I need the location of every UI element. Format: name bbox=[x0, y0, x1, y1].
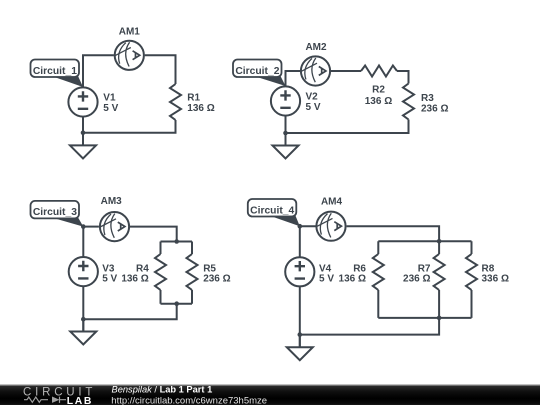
svg-text:R3: R3 bbox=[421, 93, 434, 104]
svg-text:LAB: LAB bbox=[67, 396, 93, 405]
svg-text:R1: R1 bbox=[187, 92, 200, 103]
svg-text:AM2: AM2 bbox=[305, 42, 327, 53]
svg-text:R2: R2 bbox=[372, 85, 385, 96]
svg-text:5 V: 5 V bbox=[103, 103, 118, 114]
svg-text:136 Ω: 136 Ω bbox=[365, 96, 392, 107]
svg-text:136 Ω: 136 Ω bbox=[121, 274, 148, 285]
svg-text:336 Ω: 336 Ω bbox=[482, 274, 509, 285]
svg-text:236 Ω: 236 Ω bbox=[203, 274, 230, 285]
svg-text:Circuit_3: Circuit_3 bbox=[33, 207, 77, 218]
svg-text:Benspilak / Lab 1 Part 1: Benspilak / Lab 1 Part 1 bbox=[112, 385, 213, 395]
svg-text:5 V: 5 V bbox=[306, 102, 321, 113]
svg-text:Circuit_1: Circuit_1 bbox=[33, 66, 77, 77]
svg-text:V1: V1 bbox=[103, 92, 116, 103]
svg-text:AM1: AM1 bbox=[119, 26, 141, 37]
svg-text:236 Ω: 236 Ω bbox=[403, 274, 430, 285]
svg-text:AM4: AM4 bbox=[321, 197, 343, 208]
svg-text:5 V: 5 V bbox=[319, 274, 334, 285]
svg-text:V2: V2 bbox=[306, 91, 319, 102]
svg-text:Circuit_2: Circuit_2 bbox=[235, 66, 279, 77]
svg-text:136 Ω: 136 Ω bbox=[339, 274, 366, 285]
svg-text:AM3: AM3 bbox=[101, 196, 123, 207]
svg-text:136 Ω: 136 Ω bbox=[187, 103, 214, 114]
svg-text:236 Ω: 236 Ω bbox=[421, 104, 448, 115]
svg-text:Circuit_4: Circuit_4 bbox=[250, 205, 294, 216]
svg-text:5 V: 5 V bbox=[102, 274, 117, 285]
svg-text:http://circuitlab.com/c6wnze73: http://circuitlab.com/c6wnze73h5mze bbox=[111, 395, 267, 405]
